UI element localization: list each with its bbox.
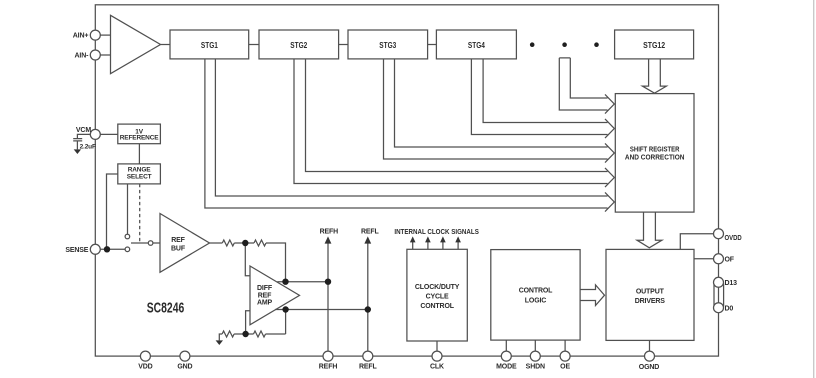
REFL rail [367,243,369,351]
svg-text:AND CORRECTION: AND CORRECTION [625,155,685,162]
svg-text:SC8246: SC8246 [147,299,185,316]
wire R3 to ground [219,334,222,340]
svg-text:SELECT: SELECT [127,173,152,180]
svg-text:AMP: AMP [257,300,273,307]
svg-text:REFL: REFL [361,229,380,236]
svg-text:REFH: REFH [320,229,339,236]
wire SHDN [534,340,536,351]
switch contact lower [125,247,130,252]
bus arrow from hidden stages to shift register [559,58,614,114]
page edge line [813,0,815,378]
wire switch pole to ref buf [153,242,160,244]
wire R4 to R3 [234,333,253,335]
junction dot after R1 [242,240,248,246]
block control logic [491,250,580,341]
bus arrow from STG3 to shift register [384,59,615,163]
port SENSE [90,244,100,254]
resistor R1 [222,240,234,246]
bus capsule D13-D0 [714,284,724,307]
port OGND [645,351,655,361]
port MODE [501,351,511,361]
port REFH [323,351,333,361]
junction dot REFH rail [325,279,331,285]
switch contact upper [125,234,130,239]
wire VCM to capacitor [77,134,90,138]
port OF [714,254,724,264]
svg-text:OF: OF [725,256,735,263]
svg-text:DIFF: DIFF [257,285,273,292]
svg-text:OUTPUT: OUTPUT [636,288,665,295]
internal clock arrowheads [410,236,416,242]
wire feedback down [285,310,287,335]
svg-text:CLK: CLK [430,363,444,370]
svg-text:2.2uF: 2.2uF [80,144,96,151]
port D13 [714,277,724,287]
dashed control line [139,184,141,243]
block STG1 [170,30,249,59]
REFH up arrow [325,236,332,243]
svg-text:STG3: STG3 [379,41,396,50]
svg-text:STG12: STG12 [643,41,665,50]
port CLK [432,351,442,361]
block STG12 [615,30,694,59]
REFH rail [327,243,329,351]
wire range select to switch upper contact [127,184,129,234]
block range select [118,164,161,184]
block STG2 [259,30,339,59]
wire OF [694,258,714,260]
block STG3 [348,30,428,59]
svg-text:VCM: VCM [76,127,91,134]
wire STG1-STG2 [249,44,259,46]
junction dot feedback/REFL [282,306,288,312]
svg-text:REFERENCE: REFERENCE [120,135,160,142]
svg-text:STG1: STG1 [201,41,218,50]
REFL up arrow [364,236,371,243]
svg-text:LOGIC: LOGIC [525,297,547,304]
junction dot bottom divider [242,331,248,337]
op-amp DIFF REF AMP [250,266,300,325]
wire 1V ref to range select [138,144,140,164]
svg-text:REFH: REFH [319,363,338,370]
capacitor C 2.2uF [73,139,82,150]
svg-text:CONTROL: CONTROL [519,287,553,294]
wire R1 to node [234,242,254,244]
svg-text:SENSE: SENSE [65,247,88,254]
svg-text:CYCLE: CYCLE [426,294,449,301]
port SHDN [530,351,540,361]
svg-text:STG2: STG2 [290,41,307,50]
wire STG3-STG4 [428,44,437,46]
port D0 [714,303,724,313]
resistor R4 [254,331,266,337]
wire MODE [505,340,507,351]
resistor R3 [222,331,234,337]
wire OVDD [680,234,714,250]
big arrow STG12 to shift register [642,59,666,93]
svg-text:AIN-: AIN- [75,53,90,60]
svg-text:RANGE: RANGE [128,166,152,173]
wire upper output REFH [277,281,328,283]
svg-text:DRIVERS: DRIVERS [635,298,666,305]
svg-text:STG4: STG4 [468,41,485,50]
block STG4 [436,30,516,59]
wire range select left to sense node [107,174,118,249]
port AIN+ [90,30,100,40]
outer border [95,5,718,356]
switch pole [148,241,153,246]
stage ellipsis dots [530,42,535,47]
wire OE [564,340,566,351]
svg-text:SHIFT REGISTER: SHIFT REGISTER [630,147,680,154]
internal clock signal lines [413,242,458,249]
svg-text:OGND: OGND [639,364,659,371]
op-amp REF BUF [160,214,210,273]
bus arrow from STG4 to shift register [471,59,614,138]
port OVDD [714,229,724,239]
block output drivers [606,249,694,340]
svg-text:SHDN: SHDN [526,363,545,370]
switch blade [131,242,148,244]
wire OGND [649,340,651,351]
bus arrow from STG2 to shift register [294,59,614,187]
ground arrow divider [216,340,223,345]
svg-text:D0: D0 [725,306,734,313]
svg-text:REFL: REFL [359,363,378,370]
block shift register and correction [615,94,694,213]
svg-text:CLOCK/DUTY: CLOCK/DUTY [415,284,460,291]
svg-text:REF: REF [258,292,272,299]
wire SENSE [100,248,125,250]
port VCM [90,129,100,139]
wire AIN+ stub [100,34,111,36]
svg-text:OE: OE [560,363,570,370]
bus arrow from STG1 to shift register [205,59,614,212]
svg-text:GND: GND [177,363,192,370]
wire ref buf output [210,242,223,244]
block 1V reference [118,124,161,144]
wire VCM to 1V reference [100,133,118,135]
big arrow shift register to output drivers [637,212,662,248]
wire lower output REFL [275,309,368,311]
port GND [180,351,190,361]
svg-text:D13: D13 [725,280,738,287]
wire R2 to feedback corner [266,243,286,282]
wire feedback bottom right [266,333,286,335]
svg-text:AIN+: AIN+ [73,33,89,40]
block arrow control logic to output drivers [580,285,604,306]
junction dot feedback/REFH [282,279,288,285]
wire node to diff amp upper input [245,243,250,276]
svg-text:OVDD: OVDD [725,235,742,242]
wire CLK [436,341,438,351]
wire diff amp lower input [246,311,250,334]
svg-text:BUF: BUF [171,245,186,252]
port VDD [140,351,150,361]
svg-text:INTERNAL CLOCK SIGNALS: INTERNAL CLOCK SIGNALS [394,227,479,236]
svg-text:CONTROL: CONTROL [420,303,454,310]
ground arrow capacitor [74,149,81,154]
svg-text:MODE: MODE [496,363,517,370]
svg-text:VDD: VDD [138,363,152,370]
junction dot REFL rail [365,306,371,312]
resistor R2 [254,240,266,246]
port REFL [363,351,373,361]
svg-text:REF: REF [171,237,185,244]
wire amp to STG1 [161,44,171,46]
wire AIN- stub [100,54,111,56]
port OE [560,351,570,361]
op-amp input buffer [111,15,161,73]
port AIN- [90,50,100,60]
wire STG2-STG3 [339,44,348,46]
junction dot SENSE [104,246,110,252]
block clock duty cycle control [407,249,467,341]
